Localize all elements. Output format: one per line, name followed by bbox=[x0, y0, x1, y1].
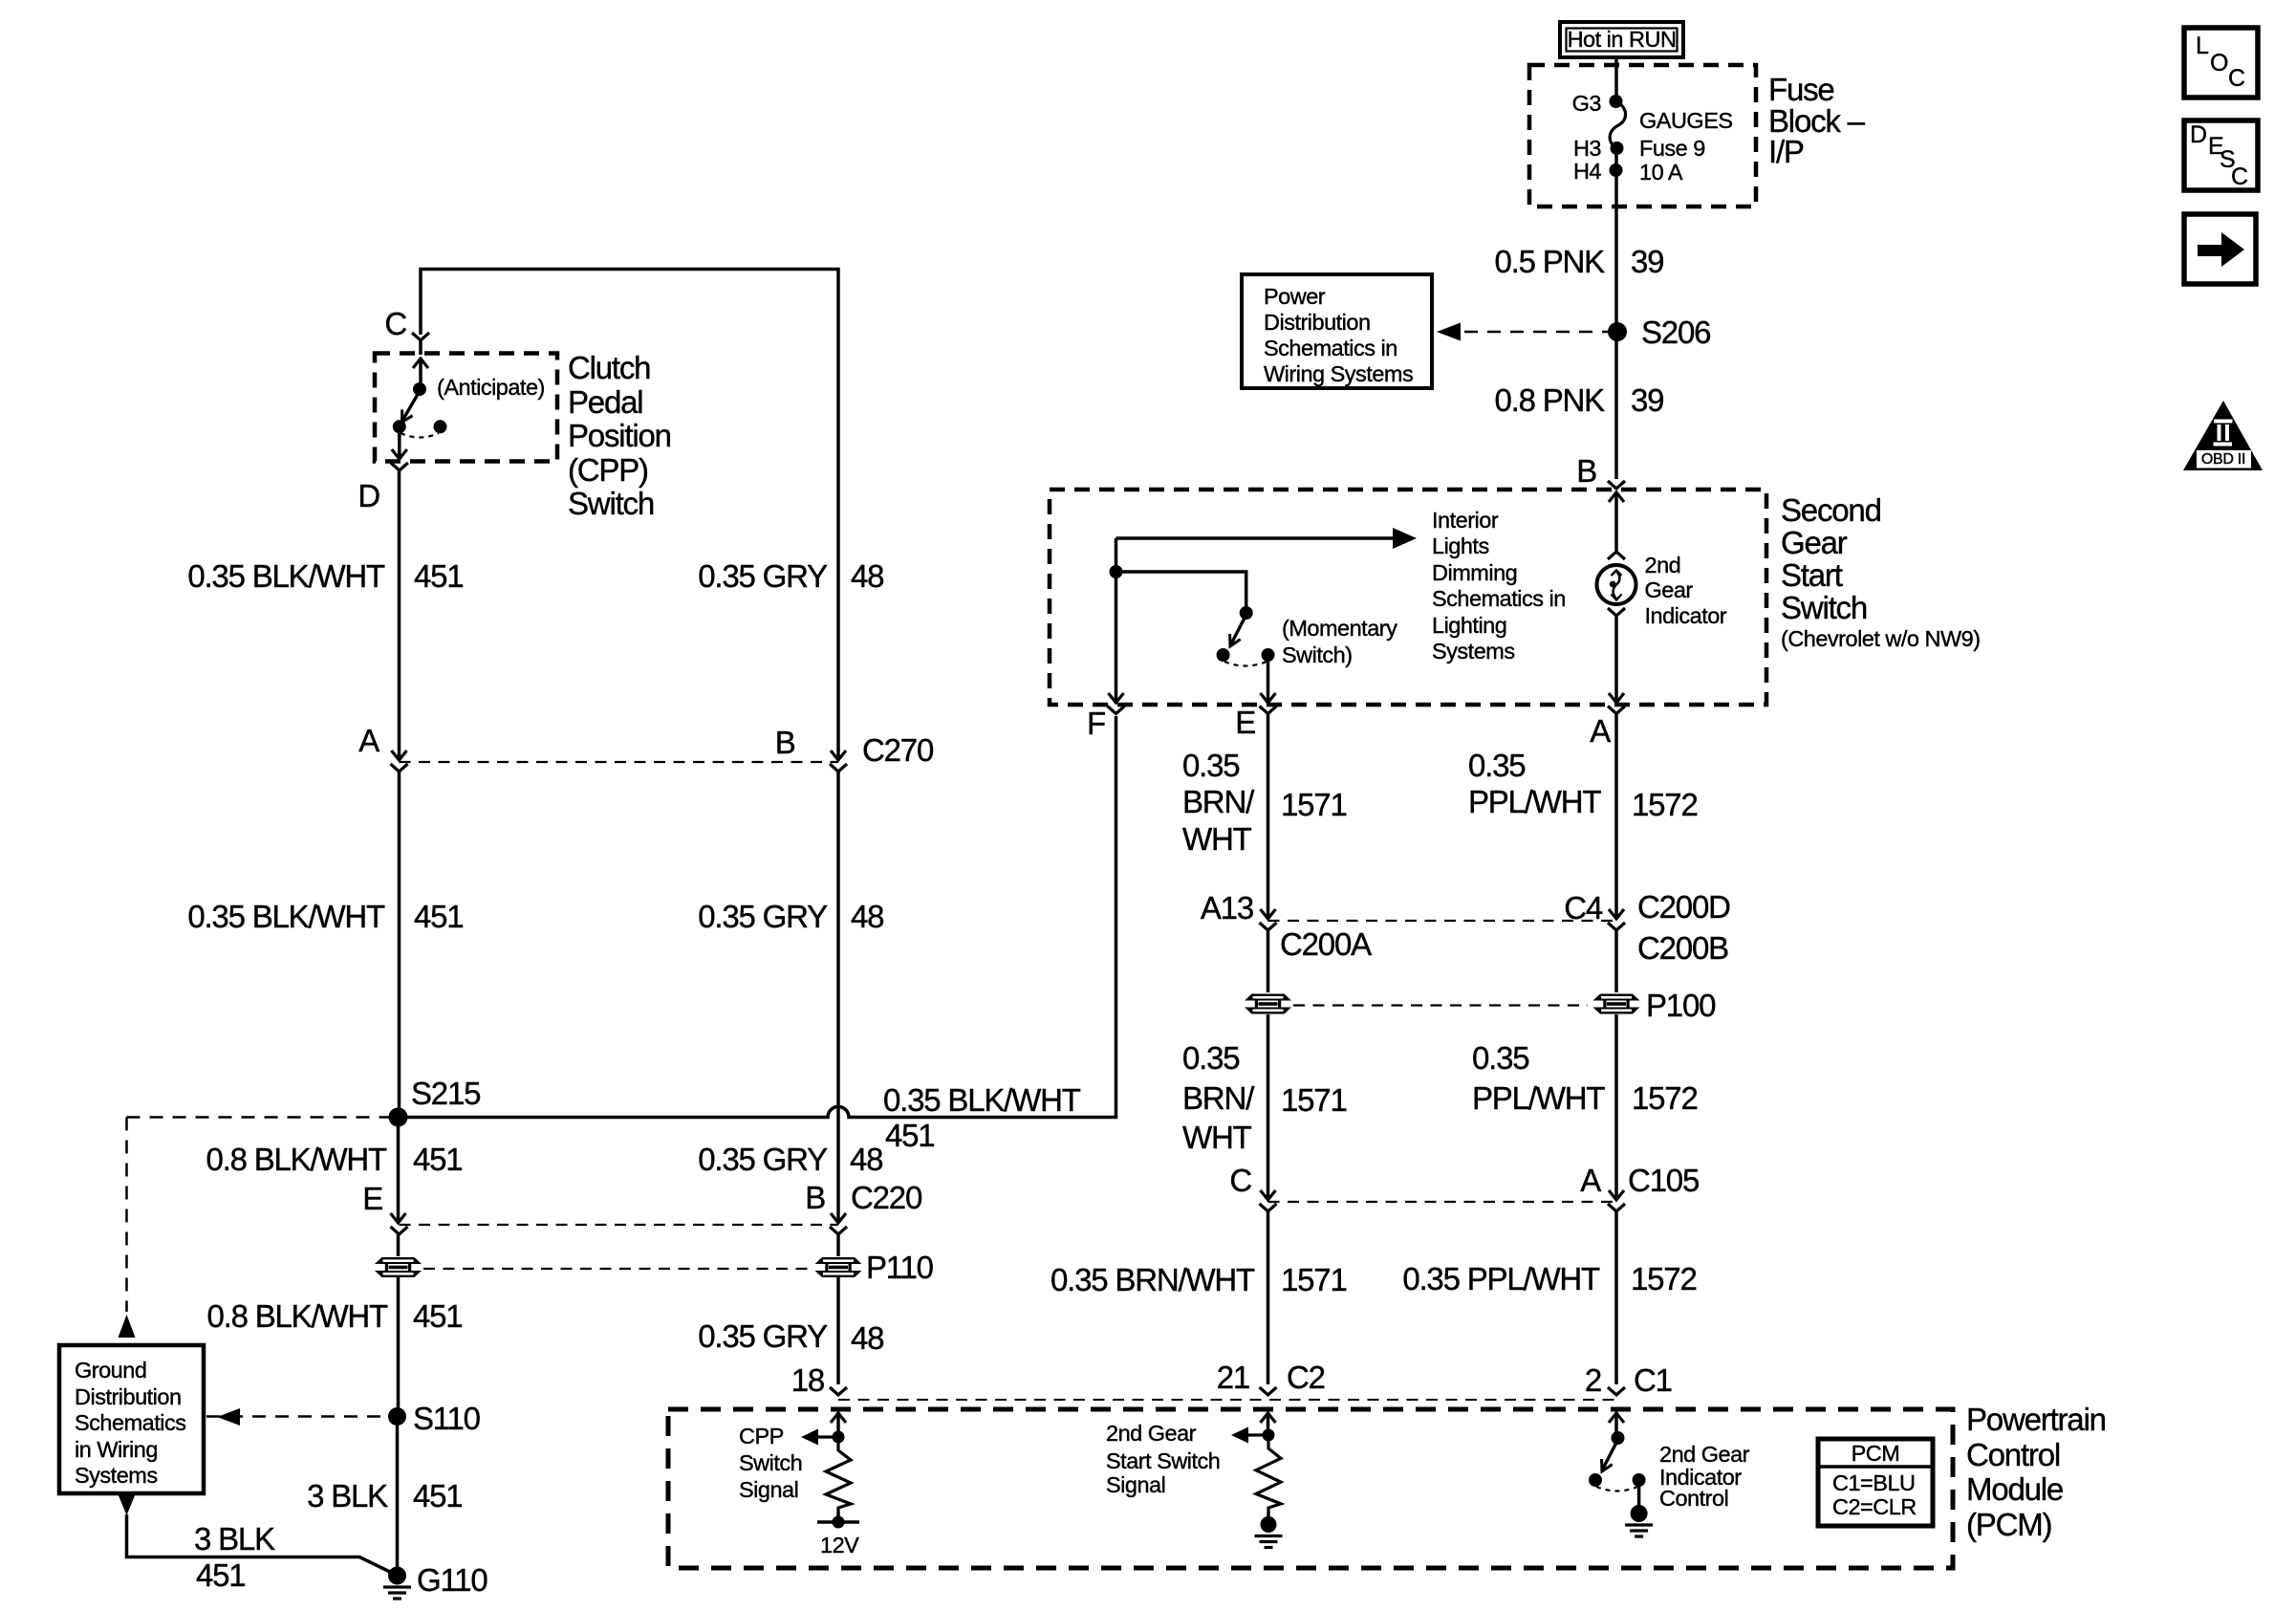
circuit 1572 bottom bbox=[1631, 1263, 1697, 1295]
grommet P110 right bbox=[815, 1257, 862, 1277]
circuit 451 third bbox=[413, 1143, 462, 1175]
arrowhead at C200A pin A13 bbox=[1261, 909, 1276, 919]
pin label C4 bbox=[1201, 892, 1602, 924]
grommet P100 left bbox=[1245, 994, 1291, 1014]
PCM cpp switch signal bbox=[739, 1426, 784, 1448]
wire (indicator to pin A) bbox=[1609, 617, 1624, 704]
PCM indicator driver left contact bbox=[1589, 1473, 1602, 1487]
fuse pin H3 bbox=[1200, 138, 1601, 161]
pin label A 2nd gear bbox=[1208, 715, 1610, 747]
wire label PPL lower bbox=[1472, 1042, 1528, 1074]
dashed reference line (ground box to S110) bbox=[206, 1415, 388, 1418]
LOC legend box bbox=[2184, 28, 2258, 98]
momentary switch blade bbox=[1230, 615, 1246, 646]
PCM pin 18 arrow bbox=[831, 1412, 846, 1437]
legend letter E bbox=[2208, 135, 2223, 159]
PCM CPP signal arrow bbox=[801, 1429, 838, 1446]
connector chevron C200B bbox=[1608, 923, 1625, 992]
2nd gear indicator top chevron bbox=[1608, 552, 1625, 559]
hot in run box bbox=[1560, 22, 1683, 57]
PCM 2nd gear indicator control 3 bbox=[1659, 1488, 1728, 1511]
momentary switch pivot contact bbox=[1240, 606, 1253, 620]
power distribution text 3 bbox=[1264, 337, 1397, 360]
arrowhead at C220 pin B bbox=[831, 1213, 846, 1223]
pin label A C270 bbox=[0, 725, 379, 756]
CPP switch moving contact bbox=[393, 420, 406, 433]
node label G110 bbox=[417, 1564, 487, 1596]
connector chevron 2nd-gear pin A bbox=[1608, 707, 1625, 917]
wire (ground box to G110) bbox=[127, 1514, 396, 1575]
node S206 junction bbox=[1608, 322, 1627, 341]
connector chevron C270 B bbox=[830, 764, 847, 1220]
circuit 39 bbox=[1631, 246, 1663, 277]
circuit 48 fourth bbox=[851, 1322, 883, 1354]
wire label 0.8 PNK bbox=[1202, 384, 1604, 416]
wire label BRN lower 3 bbox=[1182, 1121, 1251, 1153]
wire (pin D to C270 pin A) bbox=[392, 470, 407, 760]
2nd gear indicator lamp circle bbox=[1597, 565, 1636, 604]
legend letter S bbox=[2220, 148, 2235, 172]
PCM C2=CLR bbox=[1832, 1496, 1917, 1519]
grommet P110 dashed link bbox=[423, 1268, 813, 1270]
legend letter L bbox=[2196, 34, 2208, 58]
circuit 39 second bbox=[1631, 384, 1663, 416]
circuit 48 second bbox=[851, 901, 883, 932]
PCM pin 21 arrow bbox=[1261, 1412, 1276, 1435]
wire (hot in run to fuse) bbox=[1614, 57, 1618, 101]
momentary switch throw arc bbox=[1224, 662, 1267, 666]
power distribution text bbox=[1264, 286, 1325, 309]
circuit 451 fourth bbox=[413, 1300, 462, 1332]
wire label 0.35 BRN/WHT bottom bbox=[853, 1264, 1254, 1295]
momentary switch right contact bbox=[1262, 648, 1275, 662]
grommet P110 left bbox=[375, 1257, 422, 1277]
wire label BRN lower bbox=[1182, 1042, 1239, 1074]
second gear start switch dashed box bbox=[1050, 490, 1766, 705]
powertrain control module label bbox=[1966, 1404, 2106, 1435]
wire (P100 to C105 pin A) bbox=[1609, 1014, 1624, 1200]
CPP switch pin C arrow bbox=[413, 358, 428, 383]
fuse pin H4 bbox=[1200, 161, 1601, 184]
pin label D bbox=[0, 480, 379, 512]
connector label C220 bbox=[851, 1182, 921, 1213]
dashed reference line (S215 to ground box) bbox=[127, 1118, 390, 1313]
connector C220 dashed line bbox=[400, 1224, 839, 1226]
connector chevron 2nd-gear pin E bbox=[1260, 707, 1277, 917]
momentary switch left contact bbox=[1217, 648, 1230, 662]
wire (CPP pin C to top rail to C270 pin B) bbox=[421, 270, 838, 758]
pin label 21 bbox=[848, 1361, 1249, 1393]
fuse block label 3 bbox=[1768, 136, 1804, 167]
PCM CPP signal junction dot bbox=[833, 1431, 845, 1444]
PCM C1=BLU bbox=[1832, 1472, 1915, 1495]
arrow to interior lights dimming bbox=[1393, 528, 1417, 549]
CPP switch open contact bbox=[434, 420, 447, 433]
PCM 2nd gear indicator control bbox=[1659, 1444, 1749, 1467]
circuit 451 branch bbox=[885, 1120, 934, 1151]
fuse pin H4 dot bbox=[1610, 163, 1623, 177]
2nd gear indicator bottom chevron bbox=[1608, 608, 1625, 616]
pin label E C220 bbox=[0, 1183, 382, 1214]
ground (PCM pin 21) bbox=[1255, 1516, 1283, 1548]
next-page arrow symbol bbox=[2198, 232, 2244, 267]
ground (PCM pin 2) bbox=[1625, 1505, 1653, 1536]
reference arrow above ground box bbox=[119, 1315, 136, 1338]
reference arrow toward power box bbox=[1437, 323, 1461, 341]
ground distribution text 3 bbox=[75, 1412, 185, 1435]
connector C105 dashed line bbox=[1268, 1201, 1617, 1203]
wire (fuse H3 to H4 to S206) bbox=[1614, 148, 1618, 328]
legend letter C2 bbox=[2231, 165, 2248, 189]
wire label 0.35 BLK/WHT branch bbox=[883, 1084, 1080, 1116]
wire (S215 to C220 pin E) bbox=[391, 1118, 406, 1224]
wire (P100 to C105 pin C) bbox=[1261, 1014, 1276, 1200]
circuit 1571 mid bbox=[1281, 1084, 1347, 1116]
interior lights text 6 bbox=[1432, 641, 1515, 664]
power distribution text 2 bbox=[1264, 312, 1371, 335]
connector chevron 2nd-gear pin F bbox=[1108, 707, 1125, 714]
wire label 3 BLK bbox=[0, 1480, 387, 1512]
PCM 2nd gear indicator control 2 bbox=[1659, 1467, 1742, 1490]
connector label C2 bbox=[1287, 1361, 1325, 1393]
connector chevron C270 A bbox=[391, 764, 408, 1113]
circuit 1572 upper bbox=[1632, 789, 1698, 820]
wire label 0.35 BRN/WHT upper bbox=[1182, 750, 1239, 781]
connector chevron C220 B bbox=[830, 1227, 847, 1256]
hot in run label bbox=[1335, 29, 1909, 52]
2nd gear indicator filament bbox=[1610, 571, 1622, 600]
wire label BRN lower 2 bbox=[1182, 1082, 1253, 1114]
pin label F bbox=[704, 708, 1105, 739]
fuse pin G3 bbox=[1200, 93, 1601, 116]
connector label C200B bbox=[1637, 932, 1728, 964]
wire label PPL lower 2 bbox=[1472, 1082, 1604, 1114]
OBD II symbol triangle bbox=[2183, 401, 2263, 470]
fuse GAUGES Fuse 9 element bbox=[1610, 101, 1625, 148]
OBD II label bbox=[1937, 452, 2296, 468]
resistor (2nd gear pull-down) bbox=[1256, 1435, 1281, 1517]
wire (S215 branch to F pin, hop over GRY wire) bbox=[399, 716, 1116, 1118]
fuse block dashed box bbox=[1529, 65, 1756, 207]
connector C200 dashed line bbox=[1268, 920, 1617, 922]
PCM cpp switch signal 3 bbox=[739, 1479, 798, 1502]
2nd gear indicator label bbox=[1645, 555, 1681, 577]
powertrain control module dashed box bbox=[668, 1409, 1953, 1568]
PCM indicator driver pivot contact bbox=[1612, 1431, 1625, 1445]
node label S110 bbox=[413, 1403, 480, 1434]
clutch pedal position switch label bbox=[568, 352, 650, 383]
circuit 1572 mid bbox=[1632, 1082, 1698, 1114]
momentary switch note bbox=[1282, 618, 1397, 641]
PCM indicator driver throw arc bbox=[1596, 1487, 1637, 1491]
power distribution schematics box bbox=[1242, 274, 1432, 388]
connector label C105 bbox=[1628, 1165, 1699, 1196]
PCM connector id box bbox=[1818, 1439, 1933, 1526]
circuit 1571 bottom bbox=[1281, 1264, 1347, 1295]
wire (P110 to S110) bbox=[397, 1277, 401, 1413]
wire label 0.8 BLK/WHT lower bbox=[0, 1300, 387, 1332]
connector chevron C105 A bbox=[1608, 1204, 1625, 1384]
connector label C200A bbox=[1280, 928, 1371, 960]
ground distribution text 4 bbox=[75, 1439, 158, 1462]
2nd gear switch pin B arrow bbox=[1609, 491, 1624, 551]
fuse name GAUGES bbox=[1639, 110, 1733, 133]
chevrolet note bbox=[1781, 628, 1981, 651]
wire label 0.35 PPL/WHT upper bbox=[1468, 750, 1525, 781]
PCM pin 2 arrow bbox=[1609, 1412, 1624, 1433]
circuit 48 bbox=[851, 560, 883, 592]
wire (momentary switch to pin E) bbox=[1261, 655, 1276, 704]
grommet P100 dashed link bbox=[1293, 1004, 1588, 1006]
fuse pin G3 dot bbox=[1610, 95, 1623, 108]
grommet label P100 bbox=[1646, 990, 1715, 1021]
PCM connector row dashed line bbox=[838, 1399, 1616, 1401]
connector chevron PCM pin 21 bbox=[1260, 1387, 1277, 1395]
wire label 0.35 GRY bbox=[425, 560, 827, 592]
interior lights text 5 bbox=[1432, 615, 1506, 638]
pin label A C105 bbox=[1199, 1165, 1600, 1196]
interior lights feed wire bbox=[1116, 538, 1395, 572]
pin label B C220 bbox=[423, 1182, 825, 1213]
momentary switch note 2 bbox=[1282, 644, 1353, 667]
junction dot on F wire bbox=[1110, 565, 1123, 578]
pin label 2 bbox=[1200, 1364, 1601, 1396]
wire (driver contact to ground) bbox=[1637, 1480, 1641, 1507]
wire label 3 BLK bottom bbox=[194, 1523, 274, 1555]
pin label C bbox=[5, 308, 406, 339]
DESC legend box bbox=[2184, 120, 2258, 190]
wire (junction to momentary switch) bbox=[1116, 572, 1246, 606]
CPP switch blade bbox=[402, 391, 421, 423]
wire label 0.5 PNK bbox=[1202, 246, 1604, 277]
PCM indicator driver right contact bbox=[1633, 1473, 1646, 1487]
PCM 2nd gear start switch signal 2 bbox=[1106, 1450, 1220, 1473]
circuit 451 fifth bbox=[413, 1480, 462, 1512]
pin label 18 bbox=[422, 1364, 824, 1396]
ground distribution schematics box bbox=[59, 1345, 204, 1493]
connector chevron pin C bbox=[412, 333, 429, 355]
fuse block label bbox=[1768, 74, 1834, 105]
ground distribution text bbox=[75, 1360, 146, 1382]
arrowhead at C270 pin B bbox=[831, 751, 846, 760]
12V rail bbox=[817, 1516, 859, 1529]
wire label 0.35 PPL/WHT bottom bbox=[1198, 1263, 1599, 1295]
interior lights text 3 bbox=[1432, 562, 1517, 585]
grommet label P110 bbox=[866, 1252, 933, 1283]
connector C270 dashed line bbox=[400, 761, 839, 763]
interior lights text 2 bbox=[1432, 535, 1489, 558]
node label S215 bbox=[411, 1078, 480, 1109]
legend letter D bbox=[2190, 123, 2207, 147]
wire label 0.35 BLK/WHT bbox=[0, 560, 384, 592]
wire (F pin inside box) bbox=[1109, 572, 1124, 704]
wire (S110 to G110) bbox=[396, 1417, 400, 1572]
wire label 0.8 BLK/WHT bbox=[0, 1143, 386, 1175]
legend letter O bbox=[2210, 52, 2228, 76]
PCM 2nd gear signal arrow bbox=[1231, 1427, 1268, 1444]
connector chevron pin D bbox=[391, 463, 408, 470]
ground distribution text 5 bbox=[75, 1465, 158, 1488]
node S110 junction bbox=[388, 1407, 406, 1426]
wire label 0.35 GRY fourth bbox=[425, 1320, 827, 1352]
2nd gear indicator label 2 bbox=[1645, 579, 1693, 602]
connector chevron C220 E bbox=[391, 1227, 408, 1256]
circuit 48 third bbox=[850, 1143, 882, 1175]
arrowhead at C200B pin C4 bbox=[1609, 909, 1624, 919]
clutch pedal position switch dashed box bbox=[375, 354, 557, 462]
circuit 451 second bbox=[414, 901, 463, 932]
node label S206 bbox=[1641, 316, 1710, 348]
fuse pin H3 dot bbox=[1611, 142, 1624, 155]
anticipate note bbox=[437, 377, 545, 400]
fuse name Fuse 9 bbox=[1639, 138, 1705, 161]
PCM 2nd gear start switch signal bbox=[1106, 1423, 1196, 1446]
pin label B C270 bbox=[394, 727, 795, 758]
connector chevron PCM pin 18 bbox=[830, 1387, 847, 1395]
dashed reference line (S206 to power box) bbox=[1441, 331, 1609, 334]
reference arrow toward ground box bbox=[217, 1408, 240, 1426]
connector label C200D bbox=[1637, 891, 1730, 923]
resistor (CPP pull-up) bbox=[826, 1437, 851, 1520]
2nd gear indicator label 3 bbox=[1645, 605, 1727, 628]
connector chevron PCM pin 2 bbox=[1608, 1387, 1625, 1395]
PCM indicator driver blade bbox=[1602, 1440, 1618, 1471]
interior lights text bbox=[1432, 510, 1498, 533]
PCM id label bbox=[1589, 1443, 2162, 1466]
PCM 2nd gear start switch signal 3 bbox=[1106, 1474, 1165, 1497]
pin label B fuse side bbox=[1195, 455, 1596, 487]
connector chevron C105 C bbox=[1260, 1204, 1277, 1384]
circuit 451 bbox=[414, 560, 463, 592]
pin label E bbox=[854, 707, 1255, 738]
ground G110 symbol bbox=[383, 1567, 411, 1600]
ground distribution text 2 bbox=[75, 1386, 182, 1409]
power distribution text 4 bbox=[1264, 363, 1413, 386]
circuit 451 bottom bbox=[196, 1559, 245, 1591]
CPP switch top contact bbox=[413, 382, 426, 396]
reference arrow below ground box bbox=[119, 1494, 136, 1515]
legend letter C bbox=[2228, 67, 2245, 91]
connector chevron C200A bbox=[1260, 923, 1277, 992]
grommet P100 right bbox=[1593, 994, 1640, 1014]
next-page arrow box bbox=[2184, 214, 2256, 284]
second gear start switch label bbox=[1781, 494, 1881, 526]
CPP switch throw arc bbox=[401, 433, 439, 438]
wire (S206 to 2nd gear switch pin B) bbox=[1608, 332, 1625, 489]
wire (P110 to PCM pin 18) bbox=[836, 1277, 840, 1384]
pin label C C105 bbox=[850, 1165, 1251, 1196]
connector label C1 bbox=[1634, 1364, 1672, 1396]
PCM 2nd gear signal junction dot bbox=[1263, 1429, 1275, 1442]
circuit 1571 upper bbox=[1281, 789, 1347, 820]
wire label 0.35 PPL/WHT upper 2 bbox=[1468, 786, 1600, 817]
pin label A13 bbox=[852, 892, 1253, 924]
fuse block label 2 bbox=[1768, 105, 1864, 137]
wire label 0.35 GRY second bbox=[425, 901, 827, 932]
wire (CPP contact to pin D) bbox=[392, 426, 407, 460]
fuse rating 10 A bbox=[1639, 162, 1682, 185]
wire label 0.35 BRN/WHT upper 2 bbox=[1182, 786, 1253, 817]
12V label bbox=[820, 1535, 858, 1557]
wire label 0.35 GRY third bbox=[425, 1143, 827, 1175]
interior lights text 4 bbox=[1432, 588, 1566, 611]
PCM cpp switch signal 2 bbox=[739, 1452, 802, 1475]
node S215 junction bbox=[389, 1108, 408, 1127]
connector label C270 bbox=[862, 734, 933, 766]
wire label 0.35 BLK/WHT second bbox=[0, 901, 384, 932]
wire label 0.35 BRN/WHT upper 3 bbox=[1182, 823, 1251, 855]
